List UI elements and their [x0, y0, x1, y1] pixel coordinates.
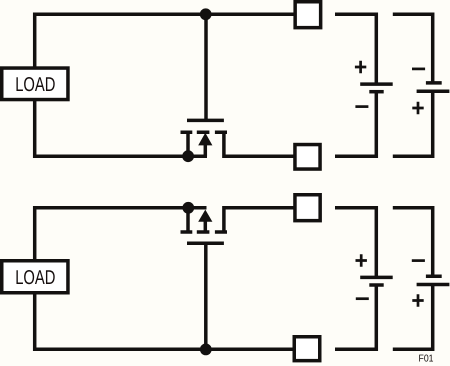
battery B1 long plate (+) — [360, 82, 393, 86]
battery B2 bottom wire — [393, 91, 433, 156]
junction dot: gate to top rail — [200, 8, 212, 20]
connector square: top — [295, 195, 320, 221]
minus sign B3 — [356, 297, 369, 300]
junction dot: source/body to top rail — [182, 202, 194, 214]
transistor Q1 source wire — [186, 131, 190, 156]
battery B2 long plate (+) — [417, 89, 450, 93]
svg-text:LOAD: LOAD — [15, 74, 55, 96]
plus sign B3 — [356, 254, 367, 266]
battery B3 long plate (+) — [360, 276, 393, 280]
wire: load L2 top to top rail (source side) — [35, 208, 207, 260]
transistor Q2 body arrow (points away from channel: PMOS) — [198, 210, 212, 222]
battery B3 short plate (-) — [369, 283, 383, 287]
wire: load L1 bottom to bottom rail (source side) — [35, 100, 207, 156]
transistor Q2 gate wire (to bottom rail) — [204, 242, 208, 349]
connector square: bottom — [294, 337, 320, 361]
battery B3 top wire — [335, 208, 376, 278]
battery B2 top wire — [393, 14, 433, 83]
transistor Q2 body wire — [204, 221, 208, 234]
wire: load L2 bottom to bottom rail — [35, 293, 295, 349]
minus sign B2 — [412, 68, 425, 71]
transistor Q1 gate bar — [187, 119, 224, 123]
svg-text:F01: F01 — [419, 354, 434, 365]
junction dot: source/body to bottom rail — [182, 150, 194, 162]
battery B1 top wire — [335, 14, 376, 84]
transistor Q2 gate bar — [187, 241, 224, 245]
battery B4 bottom wire — [393, 285, 433, 350]
battery B1 bottom wire — [335, 92, 376, 157]
load box L1 — [2, 68, 68, 100]
junction dot: gate to bottom rail — [200, 344, 212, 356]
battery B4 short plate (-) — [426, 274, 442, 278]
plus sign B4 — [412, 294, 423, 306]
transistor Q1 body arrow (points to channel: NMOS) — [198, 133, 212, 146]
transistor Q1 channel segments — [181, 130, 228, 134]
wire: load L1 top to top rail — [35, 14, 295, 68]
transistor Q2 channel segments — [181, 230, 228, 234]
battery B3 bottom wire — [335, 285, 376, 349]
battery B4 top wire — [393, 208, 433, 276]
battery B1 short plate (-) — [369, 90, 383, 94]
minus sign B4 — [412, 259, 425, 262]
transistor Q2 source wire — [186, 208, 190, 234]
transistor Q2 drain wire to top connector — [224, 208, 295, 234]
transistor Q1 drain wire to bottom connector — [224, 131, 295, 156]
connector square: top — [295, 2, 321, 28]
plus sign B1 — [355, 61, 366, 73]
plus sign B2 — [412, 102, 423, 114]
connector square: bottom — [295, 145, 320, 170]
svg-text:LOAD: LOAD — [15, 267, 55, 289]
transistor Q1 gate wire (to top rail) — [204, 14, 208, 122]
battery B4 long plate (+) — [417, 283, 450, 287]
load box L2 — [2, 261, 68, 293]
minus sign B1 — [355, 105, 368, 108]
battery B2 short plate (-) — [426, 81, 442, 85]
transistor Q1 body wire — [204, 145, 208, 157]
